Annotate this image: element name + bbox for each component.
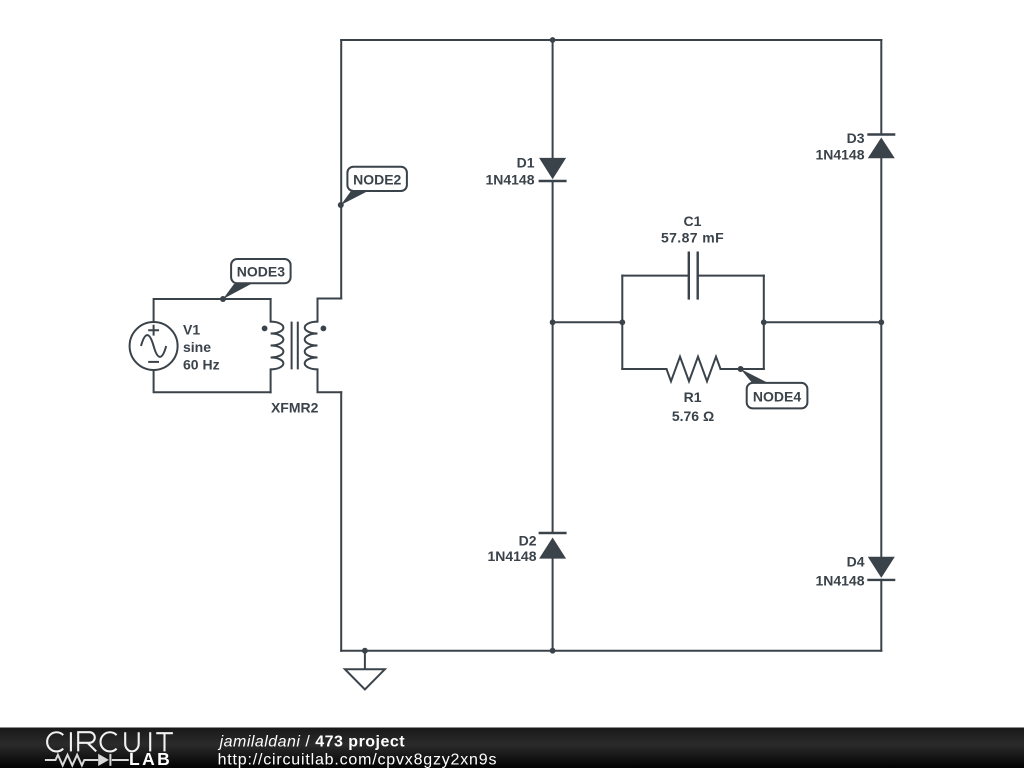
voltage source V1 [130, 322, 178, 370]
svg-text:57.87 mF: 57.87 mF [661, 230, 724, 246]
resistor R1 [667, 357, 721, 382]
svg-text:R1: R1 [684, 389, 702, 405]
wire C1 left lead [622, 275, 689, 277]
junction dot bottom rail / ground [362, 648, 368, 654]
diode D2 [539, 533, 567, 559]
wire C1 right lead [698, 275, 764, 277]
CircuitLab logo resistor-diode squiggle [45, 754, 129, 766]
svg-text:NODE3: NODE3 [237, 264, 285, 280]
svg-text:1N4148: 1N4148 [487, 548, 536, 564]
svg-text:60 Hz: 60 Hz [183, 357, 220, 373]
ground [345, 669, 385, 689]
svg-text:NODE4: NODE4 [753, 388, 801, 404]
transformer phase dot secondary [321, 326, 327, 332]
wire D4 anode from mid rail [880, 322, 882, 557]
diode D4 [867, 557, 895, 580]
svg-text:5.76 Ω: 5.76 Ω [672, 408, 714, 424]
node NODE3 callout [220, 259, 291, 302]
svg-text:jamilaldani / 473 project: jamilaldani / 473 project [218, 733, 406, 750]
wire D2 anode to bottom rail [552, 559, 554, 651]
wire primary top pin [270, 299, 272, 322]
wire jog secondary bottom pin [318, 369, 342, 392]
wire left tall rail upper (secondary top to top rail) [340, 40, 342, 299]
junction dot mid rail / D1 D2 [550, 319, 556, 325]
wire primary bottom pin [270, 369, 272, 392]
transformer phase dot primary [262, 326, 268, 332]
svg-text:1N4148: 1N4148 [815, 573, 864, 589]
capacitor C1 [689, 252, 698, 300]
ground stub wire [364, 651, 366, 670]
junction dot mid rail / block left [619, 319, 625, 325]
wire D4 cathode to bottom rail [880, 580, 882, 651]
node NODE2 callout [338, 167, 407, 208]
svg-text:D4: D4 [847, 554, 865, 570]
svg-text:XFMR2: XFMR2 [271, 399, 319, 415]
svg-text:C1: C1 [684, 213, 702, 229]
wire D1 cathode to mid rail [552, 181, 554, 322]
node NODE4 callout [738, 366, 808, 408]
junction dot bottom rail / D2 [550, 648, 556, 654]
svg-text:V1: V1 [183, 322, 200, 338]
wire R1 right lead [721, 368, 764, 370]
wire R1 left lead [622, 368, 666, 370]
wire top rail NODE2 net [341, 39, 881, 41]
svg-text:sine: sine [183, 339, 211, 355]
junction dot mid rail / block right [761, 319, 767, 325]
wire D2 cathode from mid rail [552, 322, 554, 533]
svg-text:1N4148: 1N4148 [485, 172, 534, 188]
wire jog secondary top pin [318, 299, 342, 322]
svg-text:NODE2: NODE2 [353, 171, 401, 187]
junction dot top rail / D1 [550, 37, 556, 43]
svg-text:D2: D2 [519, 533, 537, 549]
junction dot mid rail / D3 D4 [878, 319, 884, 325]
svg-text:LAB: LAB [129, 749, 172, 768]
CircuitLab logo CIRCUIT wordmark [47, 732, 173, 751]
wire D3 anode to mid rail [880, 158, 882, 322]
footer bar [0, 728, 1024, 768]
wire V1 bottom to primary bottom [154, 370, 271, 392]
wire left tall rail lower (secondary bottom to bottom rail) [340, 392, 342, 650]
svg-text:http://circuitlab.com/cpvx8gzy: http://circuitlab.com/cpvx8gzy2xn9s [218, 752, 498, 768]
transformer XFMR2 [271, 322, 318, 370]
wire V1 top to primary (NODE3 net) [154, 299, 271, 322]
wire RC block left rail [621, 276, 623, 369]
wire D3 cathode from top rail [880, 40, 882, 135]
wire bottom rail ground net [341, 650, 881, 652]
diode D1 [539, 158, 567, 181]
wire mid rail right segment [764, 321, 882, 323]
svg-text:D1: D1 [517, 155, 535, 171]
wire RC block right rail [763, 276, 765, 369]
wire D1 anode from top rail [552, 40, 554, 158]
wire mid rail left segment [553, 321, 623, 323]
diode D3 [867, 135, 895, 159]
svg-text:D3: D3 [847, 130, 865, 146]
svg-text:1N4148: 1N4148 [815, 147, 864, 163]
